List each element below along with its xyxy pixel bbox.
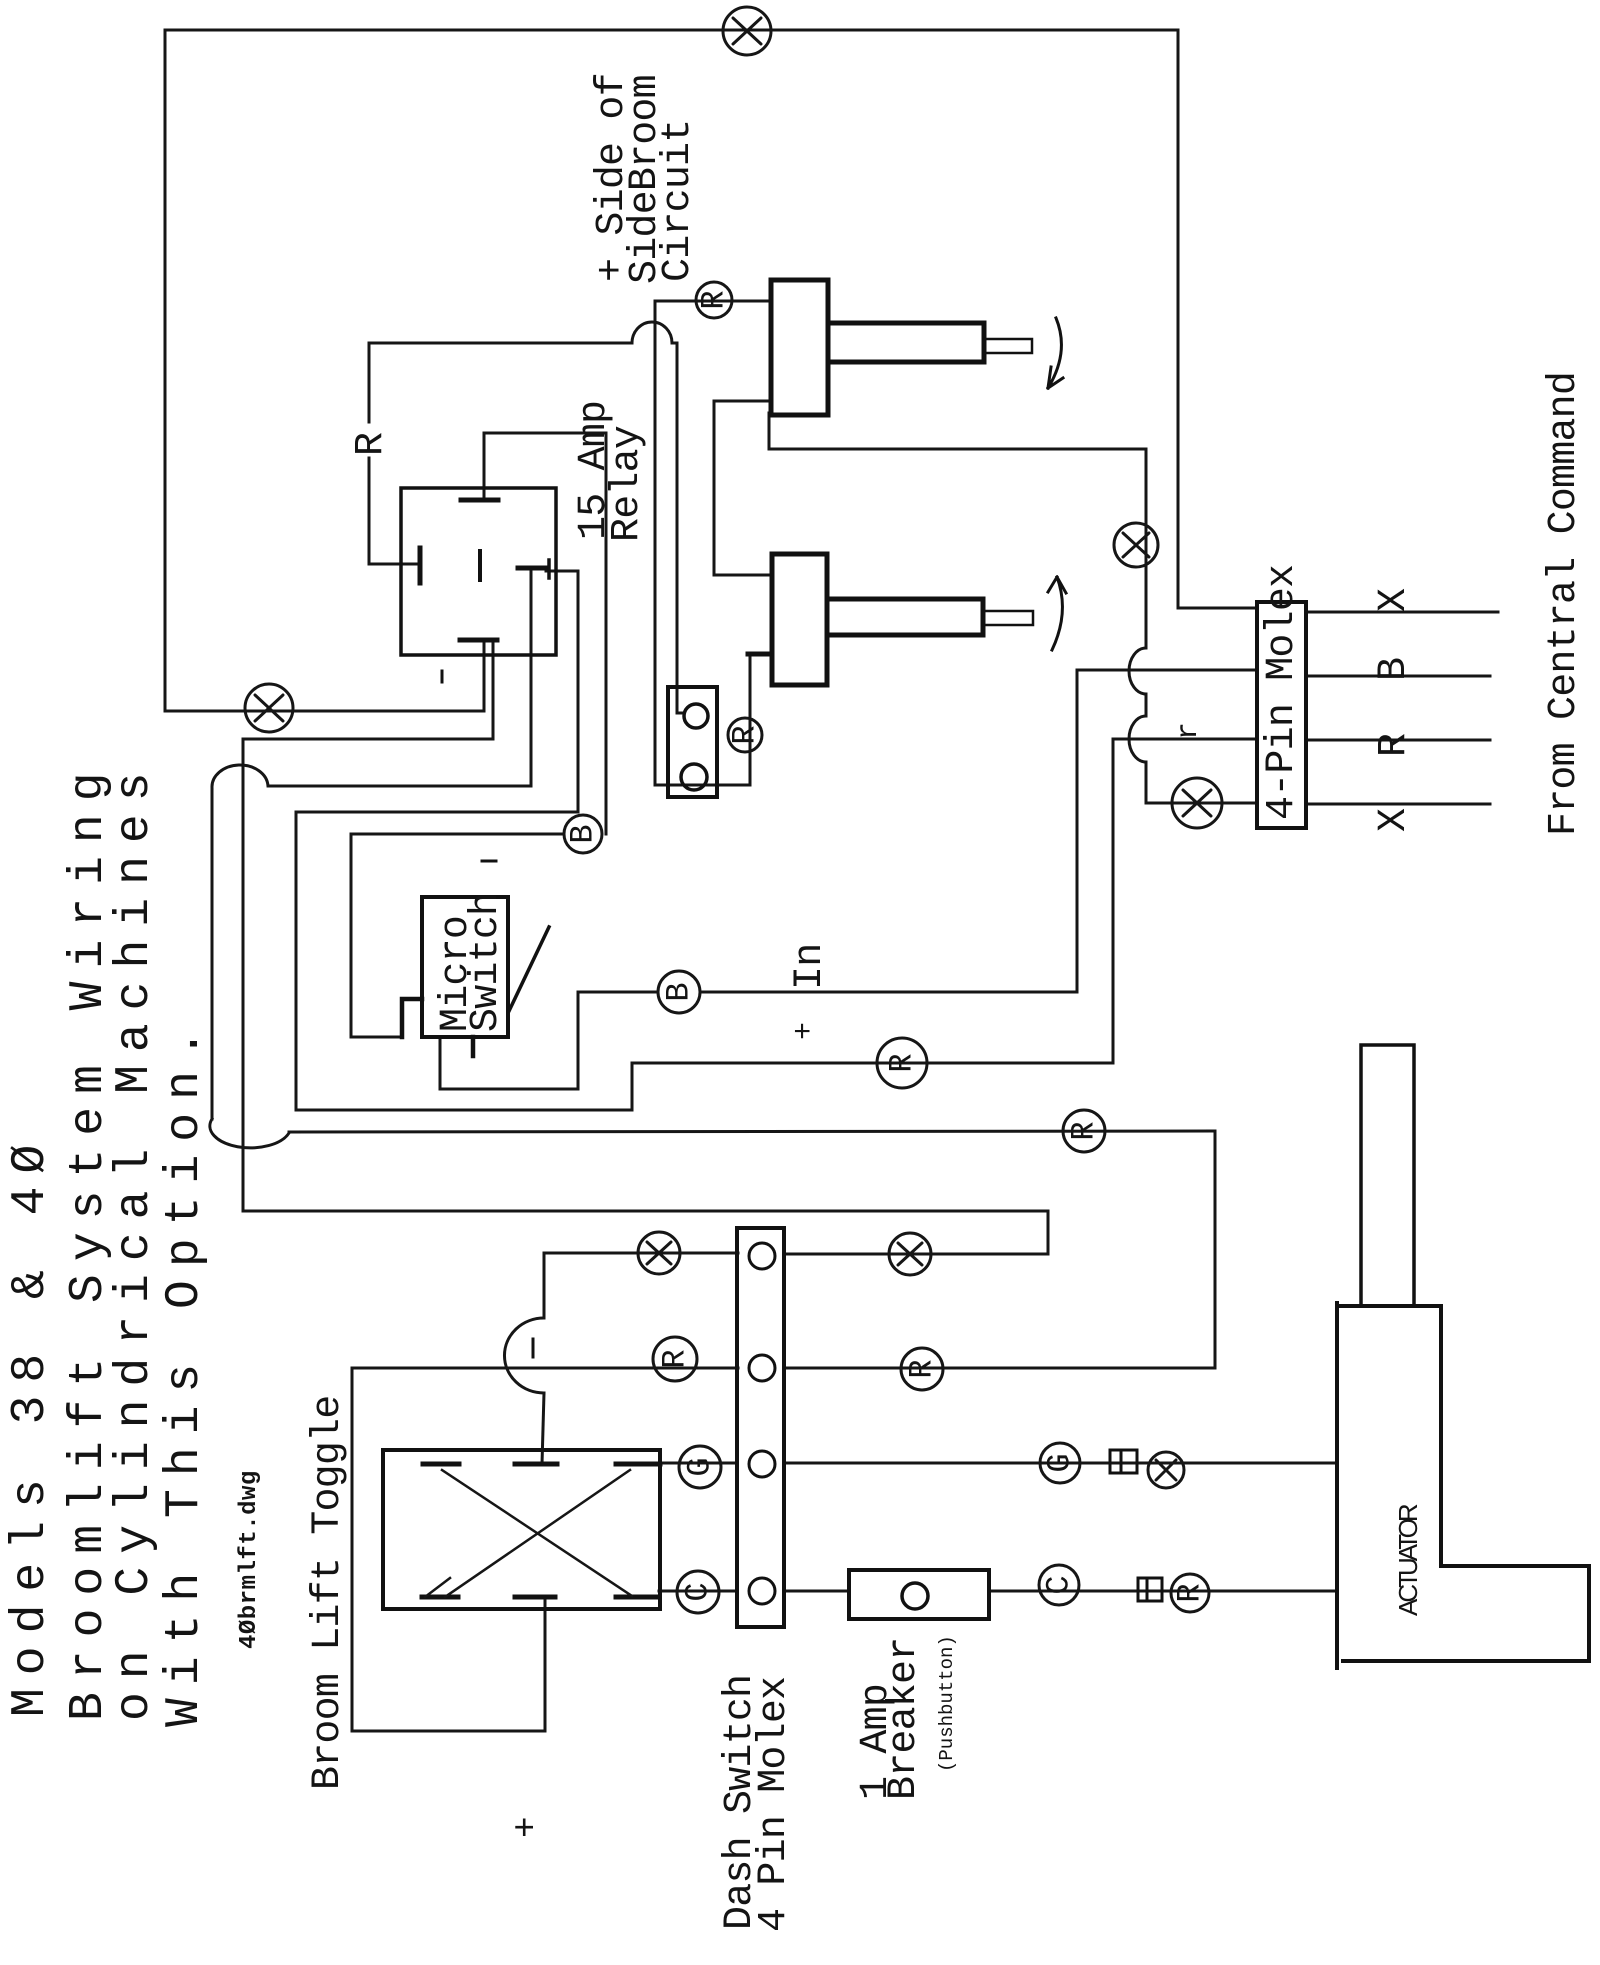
- relay K1 box: [401, 488, 556, 655]
- circled B relay junction: [564, 815, 602, 853]
- wire net X: bottom segment to left border: [165, 710, 484, 713]
- toggle cross diagonal 2: [445, 1470, 630, 1597]
- wire: relay left pin vertical (below R label): [368, 458, 371, 564]
- wire net XA: between hops: [1145, 694, 1148, 716]
- wire: dash molex pin4 right to breaker: [784, 1590, 849, 1593]
- wire net X2: horizontal to left: [243, 738, 493, 741]
- circled R breaker side: [1171, 1574, 1209, 1612]
- 2-pin connector box: [668, 687, 717, 797]
- wire: toggle bottom loop: [352, 1368, 545, 1731]
- svg-text:Circuit: Circuit: [656, 120, 701, 282]
- circled R on +In wire: [877, 1038, 927, 1088]
- toggle minus mark: [532, 1339, 535, 1357]
- toggle cross diagonal 1: [442, 1470, 632, 1596]
- wire net B2: to right and up to molex pin2: [700, 670, 1257, 992]
- circled X on X2 wire right: [889, 1233, 931, 1275]
- micro switch box: [422, 897, 508, 1037]
- wire: dash molex pin1 left to toggle: [544, 1253, 738, 1318]
- wire: micro switch pin1 stub and U loop to B2: [440, 992, 658, 1089]
- svg-text:R: R: [1066, 1121, 1103, 1140]
- wire net W3: bottom horizontal: [296, 1109, 632, 1112]
- actuator2 arrow: [1048, 577, 1066, 650]
- toggle terminal bar bottom-left: [422, 1595, 458, 1600]
- svg-text:4-Pin Molex: 4-Pin Molex: [1260, 565, 1305, 820]
- wire net X2: relay bottom pin stem B: [492, 642, 495, 739]
- svg-text:R: R: [727, 725, 764, 744]
- circled X on toggle pin1 wire: [638, 1232, 680, 1274]
- CIRCLED LABELS: [245, 7, 1222, 1613]
- svg-text:ACTUATOR: ACTUATOR: [1393, 1504, 1423, 1616]
- wire net W3: up to molex pin3 level: [1112, 739, 1115, 1063]
- circled G on toggle pin3 wire: [679, 1446, 721, 1488]
- circled X on top border: [723, 7, 771, 55]
- wire: vertical down to B junction: [605, 433, 608, 834]
- svg-text:Relay: Relay: [605, 426, 650, 542]
- breaker button circle: [902, 1583, 928, 1609]
- wire net X2: long bottom horizontal: [243, 1210, 1048, 1213]
- svg-text:Breaker: Breaker: [882, 1638, 927, 1800]
- wire net XA: horizontal to right: [769, 448, 1146, 451]
- wire: toggle pin1 hop bump over y1368: [504, 1318, 544, 1393]
- svg-text:R: R: [1372, 734, 1417, 757]
- svg-text:Models 38 & 4Ø: Models 38 & 4Ø: [4, 1132, 58, 1717]
- wire net B: B circle to left: [351, 833, 564, 836]
- wire net XA: actuator1 bottom stem: [768, 413, 771, 449]
- circled R on W2 wire: [1063, 1110, 1105, 1152]
- connector bottom pin circle: [681, 764, 707, 790]
- minus mark near micro switch label: [482, 860, 496, 863]
- wire: actuator1 lower-left to actuator2 upper-left: [714, 401, 772, 575]
- circled B micro switch: [658, 971, 700, 1013]
- actuator2 cylinder: [827, 599, 983, 635]
- wire net Q: bottom jog right: [655, 784, 750, 787]
- svg-text:(Pushbutton): (Pushbutton): [936, 1635, 958, 1772]
- svg-text:In: In: [788, 944, 833, 990]
- dash molex pin circle 1: [749, 1243, 775, 1269]
- svg-text:r: r: [1172, 722, 1206, 740]
- wire: relay top pin to right: [484, 432, 606, 435]
- svg-text:With This Option.: With This Option.: [158, 1016, 212, 1727]
- micro switch left pin L: [402, 999, 422, 1037]
- inline connector square pair upper: [1110, 1450, 1137, 1473]
- svg-text:Broom Lift Toggle: Broom Lift Toggle: [306, 1396, 351, 1790]
- toggle terminal bar bottom-right: [616, 1595, 658, 1600]
- relay center pin dash: [478, 551, 482, 580]
- svg-text:R: R: [884, 1053, 921, 1072]
- circled X on bottom border: [245, 684, 293, 732]
- wire net XA: hop over pin2 wire: [1129, 648, 1146, 694]
- wire net Q: vertical down past connector: [654, 301, 657, 785]
- svg-text:R: R: [1172, 1583, 1209, 1602]
- dash molex pin circle 3: [749, 1451, 775, 1477]
- relay left pin bar: [418, 548, 423, 583]
- wire: relay top pin stem: [483, 433, 486, 500]
- toggle terminal bar top-mid: [515, 1462, 557, 1467]
- wire net Q: horizontal to actuator1 left terminal: [655, 300, 771, 303]
- wire net W3: down left vertical: [295, 812, 298, 1110]
- dash molex pin circle 4: [749, 1578, 775, 1604]
- wire: relay left pin vertical (above R label): [368, 343, 371, 422]
- 1 amp breaker box: [849, 1570, 989, 1619]
- circled G right side: [1040, 1443, 1080, 1483]
- circled X right side: [1148, 1452, 1184, 1488]
- circled X on molex pin4: [1172, 778, 1222, 828]
- wire net P: down to connector top pin: [677, 343, 684, 713]
- wire net W2: sag arc hop under X2 vertical: [210, 1119, 289, 1148]
- relay bottom pin bar: [460, 638, 497, 643]
- wire net W2: horizontal through R label: [289, 1131, 1215, 1132]
- micro switch pin2 stub: [471, 1037, 476, 1056]
- wire: dash molex pin3 right to actuator: [784, 1462, 1337, 1465]
- wire net W3: left across: [296, 811, 578, 814]
- svg-text:R: R: [696, 290, 733, 309]
- svg-text:R: R: [349, 433, 394, 456]
- actuator1 arrow: [1048, 318, 1063, 388]
- connector top pin circle: [684, 704, 708, 728]
- wire net W2: relay right bar stem down: [530, 568, 533, 786]
- svg-text:B: B: [565, 824, 602, 843]
- relay right pin tick: [547, 560, 551, 578]
- svg-text:4 Pin Molex: 4 Pin Molex: [752, 1677, 797, 1932]
- circled R near connector: [728, 718, 762, 752]
- wire net X: right drop to 4-pin molex pin1: [1178, 30, 1257, 608]
- wire net Q: up to actuator2 bottom terminal: [749, 656, 752, 785]
- wire: dash molex pin2 left: [352, 1367, 738, 1370]
- svg-text:G: G: [682, 1457, 719, 1476]
- wire net X: top border horizontal: [165, 29, 1178, 32]
- svg-text:+: +: [506, 1816, 547, 1838]
- actuator2 bottom terminal thick bar: [748, 652, 772, 657]
- actuator1 rod: [984, 339, 1032, 353]
- wire: dash molex pin3 left to toggle: [660, 1462, 737, 1465]
- svg-text:B: B: [1372, 658, 1417, 681]
- wire net W2: left vertical down: [211, 788, 214, 1119]
- wire: breaker to actuator: [989, 1590, 1337, 1593]
- wire net XA: down through X circle: [1145, 449, 1148, 648]
- svg-text:C: C: [1041, 1575, 1078, 1594]
- wire net W2: left with hump hop over X2: [212, 765, 531, 788]
- wire net W3: jog up: [631, 1063, 634, 1110]
- wire net W2: left to dash molex pin2: [784, 1367, 1215, 1370]
- wire: dash molex pin4 left to toggle: [659, 1590, 737, 1593]
- wire: toggle pin1 stem: [542, 1393, 544, 1464]
- actuator2 rod: [983, 611, 1033, 625]
- toggle terminal bar bottom-mid: [515, 1595, 555, 1600]
- wire: 4-pin molex pin1 right: [1306, 611, 1498, 614]
- svg-text:C: C: [680, 1582, 717, 1601]
- circled R near actuator1: [696, 282, 732, 318]
- svg-text:From Central Command: From Central Command: [1542, 372, 1587, 836]
- circled R on toggle pin2 wire: [653, 1337, 697, 1381]
- wire net W2: down right side: [1214, 1131, 1217, 1368]
- wire: relay left pin tick: [369, 563, 420, 566]
- wire net W3: into 4-pin molex pin3: [1113, 738, 1257, 741]
- circled C breaker side: [1039, 1565, 1079, 1605]
- svg-text:4Øbrmlft.dwg: 4Øbrmlft.dwg: [236, 1470, 263, 1649]
- circled R on W2 right: [901, 1348, 943, 1390]
- wire net X: relay bottom pin stem A: [483, 642, 486, 711]
- actuator1 body: [771, 280, 828, 415]
- broom lift toggle box: [383, 1450, 660, 1609]
- actuator1 cylinder: [828, 323, 984, 362]
- relay right pin bar: [518, 566, 546, 571]
- wire net X: left border vertical: [164, 30, 167, 711]
- wire net X2: drop to dash molex pin1: [784, 1211, 1048, 1254]
- svg-text:G: G: [1042, 1453, 1079, 1472]
- 4-pin molex box: [1257, 602, 1306, 828]
- inline connector square pair lower: [1138, 1578, 1162, 1601]
- svg-text:X: X: [1372, 588, 1417, 612]
- relay top pin bar: [461, 498, 498, 503]
- toggle terminal bar top-left: [423, 1462, 459, 1467]
- dash switch molex bar: [737, 1228, 784, 1627]
- relay minus mark: [441, 671, 444, 682]
- svg-text:R: R: [904, 1359, 941, 1378]
- actuator plunger: [1361, 1045, 1414, 1306]
- wire net W3: relay right pin to right: [546, 571, 578, 812]
- micro switch lever: [509, 927, 549, 1011]
- toggle terminal bar top-right: [616, 1462, 660, 1467]
- svg-text:X: X: [1372, 808, 1417, 832]
- svg-text:+: +: [788, 1022, 822, 1040]
- wire net W3: horizontal through R label: [632, 1062, 1113, 1065]
- wire: 4-pin molex pin2 right: [1306, 675, 1490, 678]
- svg-text:B: B: [661, 982, 698, 1001]
- wire net X2: left vertical down: [242, 739, 245, 1211]
- svg-text:R: R: [657, 1349, 694, 1368]
- svg-text:Switch: Switch: [464, 893, 509, 1032]
- actuator body outline: [1337, 1303, 1589, 1668]
- svg-text:on Cylindrical Machines: on Cylindrical Machines: [108, 759, 162, 1721]
- circled C on toggle pin4 wire: [677, 1571, 719, 1613]
- wire net XA: hop over pin3 wire: [1129, 716, 1146, 762]
- wire: 4-pin molex pin3 right: [1306, 739, 1490, 742]
- dash molex pin circle 2: [749, 1355, 775, 1381]
- wire: 4-pin molex pin4 right: [1306, 803, 1490, 806]
- wire net XA: down and into molex pin4: [1146, 762, 1257, 803]
- circled X on XA wire: [1114, 523, 1158, 567]
- wire net P: horizontal with hop over Q: [369, 322, 677, 343]
- wire net B: down and right to micro switch pin: [351, 834, 402, 1037]
- actuator2 body: [772, 554, 827, 685]
- toggle diagonal tick: [425, 1578, 450, 1597]
